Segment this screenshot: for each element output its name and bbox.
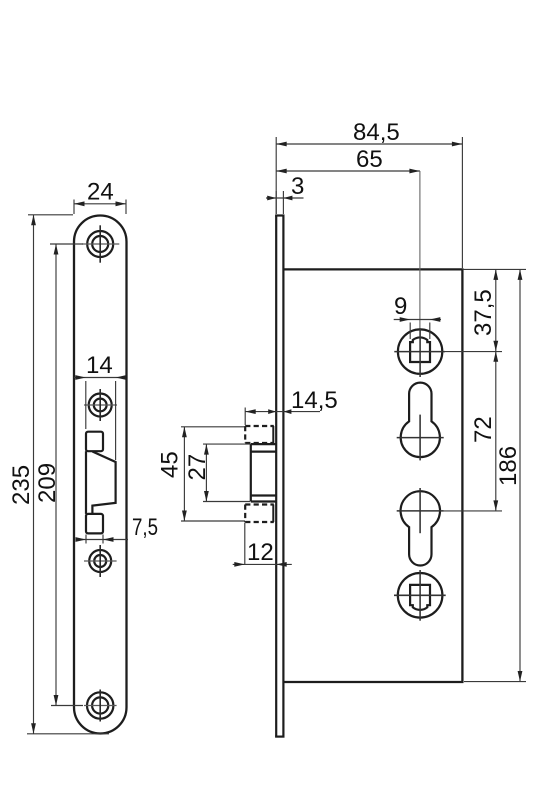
spindle hole top: square follower [410,337,430,362]
dim 209 extension lines [50,244,83,706]
faceplate side view bottom edge [275,735,284,737]
dim 186 line [519,269,521,681]
screw hole second [89,394,112,417]
faceplate front view (left, stadium outline) [74,216,127,734]
dim 72 line [495,351,497,511]
dim 27 line [205,444,207,501]
extension line euro lower center right [444,510,503,512]
svg-text:3: 3 [291,173,304,200]
dim 9 extension lines [410,323,430,340]
extension line spindle center right [444,351,502,353]
euro cylinder hole upper (stem up) [401,383,440,457]
svg-text:14: 14 [86,352,113,379]
latch side view upper box front edge [272,426,274,443]
latchbolt front view [92,452,115,514]
crosshair second hole [84,404,117,406]
svg-text:27: 27 [184,454,211,481]
dim 3 extension lines [276,191,283,214]
spindle hole bottom: square follower [410,585,430,610]
dim 37,5 line [495,269,497,351]
dim 12 extension line [244,523,246,565]
svg-text:72: 72 [470,416,497,443]
crosshair top hole [82,243,119,245]
dim 9 line [394,319,441,321]
svg-text:7,5: 7,5 [132,514,158,541]
svg-text:235: 235 [8,465,35,505]
svg-text:24: 24 [87,179,114,206]
dim 14,5 extension line [244,408,246,426]
euro cylinder hole lower (stem down) [401,491,440,565]
svg-text:14,5: 14,5 [291,387,338,414]
screw hole third [89,550,111,572]
latch side view upper dashed box [245,426,274,443]
dim 84,5 line [276,143,462,145]
dim 84,5 extension line left [275,137,277,214]
screw hole bottom (countersunk) [87,692,113,718]
spindle hole top: circle [398,329,442,373]
latch cutout left channel edge [85,451,87,514]
svg-text:12: 12 [247,539,274,566]
crosshair euro lower [397,488,444,533]
crosshair spindle top [394,329,445,377]
faceplate side view top edge [275,214,284,216]
dim 209 line [55,244,57,706]
dim 24 line [74,203,126,205]
vertical centerline through holes [419,171,421,329]
svg-text:84,5: 84,5 [353,119,400,146]
faceplate side view front face line [275,216,277,737]
dim 65 line [276,170,420,172]
dim 12 line [233,563,292,565]
svg-text:9: 9 [394,293,407,320]
dim 14 line [74,377,126,379]
latch cutout upper square [86,432,103,452]
svg-text:37,5: 37,5 [470,289,497,336]
dim 45 line [183,427,185,521]
screw hole top (countersunk) [87,231,113,257]
dim 235 extension lines [27,215,109,734]
latch cutout lower square [86,514,103,534]
dim 84,5 extension line right [461,137,463,268]
dim 235 line [33,215,35,734]
crosshair spindle bottom [394,570,446,621]
spindle hole bottom: circle [398,573,443,618]
dim 7,5 line [76,539,128,541]
faceplate side view back face line [282,216,284,737]
svg-text:209: 209 [34,463,61,503]
svg-text:186: 186 [495,446,522,486]
crosshair bottom hole [84,705,117,707]
lock body outline [283,269,462,682]
dim 27 extension lines [203,444,250,501]
svg-text:45: 45 [157,451,184,478]
dim 14 extension lines [86,381,116,460]
extension line body bottom right [464,681,526,683]
dim 7,5 extension lines [86,535,103,544]
dim 45 extension lines [181,427,245,521]
latch side view middle block [251,444,276,501]
dim 3 line [266,197,304,199]
crosshair third hole [84,560,117,562]
extension line body top right [462,268,526,270]
dim 24 extension lines [74,200,126,215]
crosshair euro upper [397,415,444,461]
dim 14,5 line [245,411,320,413]
latch side view lower dashed box [245,505,274,523]
latch side view lower box front edge [272,505,274,523]
svg-text:65: 65 [356,146,383,173]
